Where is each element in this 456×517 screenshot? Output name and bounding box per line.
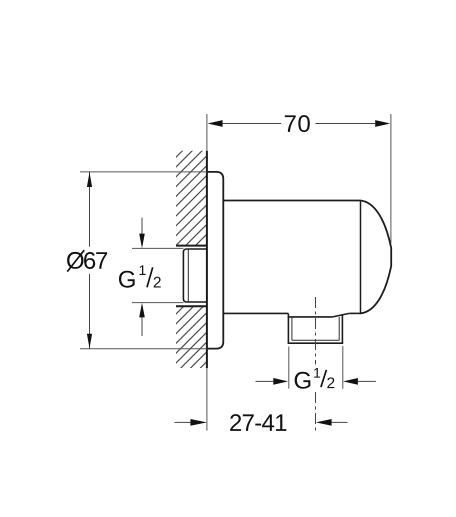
dim O67 line upper segment	[89, 172, 91, 247]
dim G1/2 outlet left leader	[256, 380, 274, 382]
outlet centerline upper	[315, 297, 317, 365]
dim O67 arrow bottom	[87, 334, 92, 349]
outlet thread root left	[291, 317, 293, 340]
outlet fraction 2	[327, 377, 334, 388]
wall hatching upper block	[176, 151, 206, 246]
outlet fraction 1	[314, 368, 320, 378]
outlet label fraction slash	[321, 370, 327, 387]
dim G1/2 outlet arrow left	[273, 378, 288, 385]
dim 27-41 arrow right	[316, 419, 332, 426]
outlet thread root bottom	[292, 339, 339, 341]
body top edge	[223, 200, 360, 202]
dim 70 line left segment	[223, 123, 282, 125]
dim 70 value	[285, 115, 310, 132]
inlet fraction 1	[140, 265, 146, 275]
inlet thread outline (behind wall)	[183, 249, 207, 302]
dim 70 extension line left	[206, 114, 208, 151]
dim O67 line lower segment	[89, 274, 91, 349]
dim 70 line right segment	[315, 123, 375, 125]
dim O67 digits 67	[84, 252, 107, 269]
outlet shoulder edge	[288, 316, 332, 318]
wall face line	[206, 151, 208, 368]
body bottom edge right segment	[349, 312, 361, 314]
dim 70 arrow right	[375, 120, 390, 127]
body bottom edge left segment	[223, 312, 288, 314]
dim O67 extension line bottom	[80, 348, 207, 350]
outlet thread outer bottom	[288, 342, 344, 344]
body cap seam line	[360, 201, 362, 314]
dim G1/2 inlet arrow bottom	[139, 303, 145, 318]
dim O67 extension line top	[80, 171, 207, 173]
outlet centerline lower	[315, 392, 317, 432]
wall hole top edge	[176, 245, 207, 247]
wall hole bottom edge	[176, 305, 207, 307]
dim 27-41 value	[230, 414, 286, 431]
outlet thread outer left	[287, 313, 289, 343]
wall hatching lower block	[176, 306, 206, 368]
dim G1/2 inlet extension line bottom	[132, 302, 183, 304]
dim 70 extension line right	[390, 114, 392, 243]
dim 27-41 extension line left (wall face)	[206, 368, 208, 431]
dim G1/2 inlet extension line top	[132, 247, 183, 249]
outlet thread outer right	[341, 315, 343, 343]
dim O67 diameter slash	[67, 250, 84, 271]
dim 27-41 right leader	[332, 421, 348, 423]
dim 27-41 left leader	[175, 421, 191, 423]
wall flange (escutcheon)	[207, 172, 223, 349]
dim G1/2 outlet arrow right	[343, 378, 358, 385]
dim G1/2 outlet extension line left	[288, 347, 290, 389]
inlet fraction 2	[154, 277, 161, 288]
dim O67 arrow top	[87, 172, 92, 187]
dim O67 letter O	[67, 252, 83, 269]
inlet thread label G	[119, 271, 135, 288]
inlet thread root line	[187, 249, 189, 301]
dim G1/2 inlet arrow top leader	[141, 218, 143, 235]
dim 27-41 arrow left	[190, 419, 207, 426]
dim G1/2 inlet arrow top	[139, 234, 145, 249]
outlet thread root right	[338, 317, 340, 340]
dim G1/2 outlet extension line right	[342, 346, 344, 389]
dim 70 arrow left	[208, 120, 223, 127]
outlet thread label G	[295, 372, 311, 389]
body domed cap outline	[361, 201, 392, 314]
inlet label fraction slash	[147, 267, 153, 287]
dim G1/2 inlet arrow bottom leader	[141, 317, 143, 336]
dim G1/2 outlet right leader	[358, 380, 376, 382]
outlet right transition chamfer	[333, 313, 350, 317]
